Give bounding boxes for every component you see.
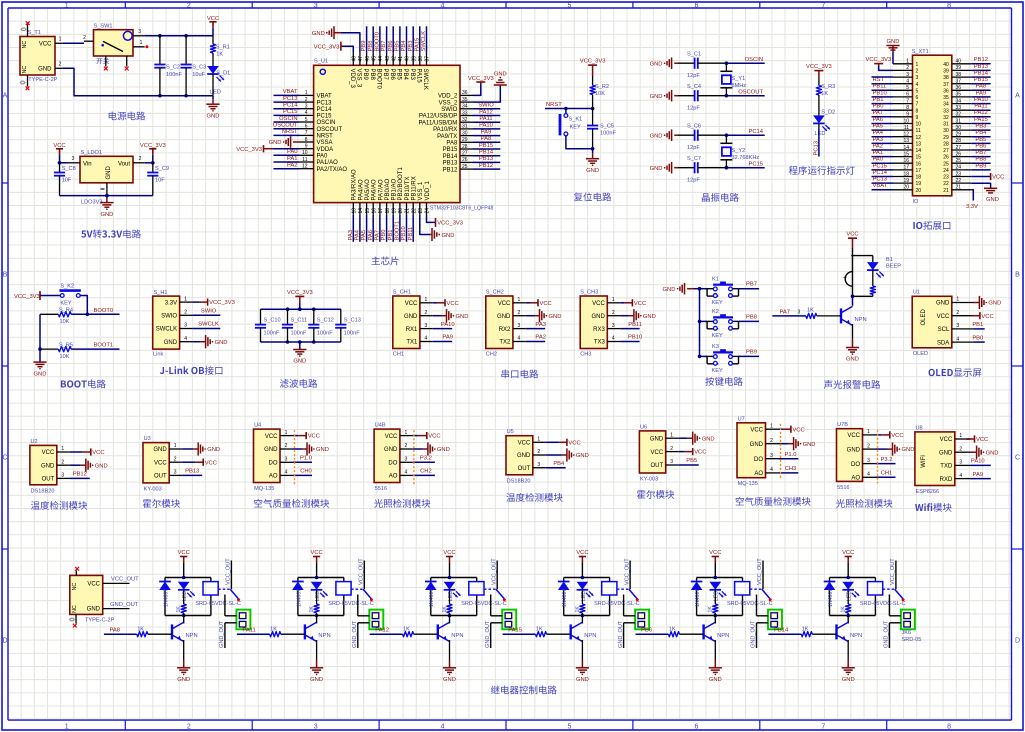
svg-text:PA12: PA12 [974, 110, 988, 116]
svg-text:PB8: PB8 [975, 157, 986, 163]
svg-text:GND: GND [887, 39, 900, 45]
svg-text:PB6: PB6 [641, 628, 652, 634]
svg-text:14: 14 [916, 148, 922, 154]
buzzer B1 BEEP [852, 256, 854, 273]
svg-text:100nF: 100nF [344, 331, 360, 337]
svg-text:PB0/AO: PB0/AO [385, 178, 391, 200]
transistor Q1 NPN [852, 296, 854, 306]
svg-text:35: 35 [943, 95, 949, 101]
svg-text:VSSA: VSSA [317, 140, 333, 146]
svg-text:SWIO: SWIO [201, 309, 217, 315]
svg-text:PB5: PB5 [396, 69, 402, 81]
svg-text:40: 40 [943, 62, 949, 68]
module U7B (5516) [837, 429, 863, 482]
base resistor 1K channel 4 [503, 633, 536, 635]
wire GND_OUT channel 6 [889, 622, 901, 624]
relay contact channel 6 [883, 588, 895, 590]
wire and net label PB13 [473, 161, 500, 163]
svg-text:PA2: PA2 [287, 163, 298, 169]
resistor 1K channel 1 [183, 590, 185, 604]
wire alarm bottom [851, 295, 873, 297]
svg-text:OUT: OUT [154, 474, 167, 480]
terminal block channel 6 [901, 610, 915, 630]
svg-text:VBAT: VBAT [283, 89, 298, 95]
svg-text:K2: K2 [712, 309, 719, 315]
module U4 (MQ-135) [254, 429, 281, 482]
svg-text:S_C4: S_C4 [687, 84, 701, 90]
svg-text:OSCOUT: OSCOUT [317, 127, 343, 133]
terminal block channel 3 [502, 610, 516, 630]
transistor NPN channel 2 [316, 616, 318, 624]
svg-text:24: 24 [943, 168, 949, 174]
svg-text:CH0: CH0 [300, 469, 312, 475]
wire and net label PB12 [473, 168, 500, 170]
svg-text:U3: U3 [144, 436, 151, 442]
svg-text:PA15: PA15 [415, 69, 421, 84]
svg-text:PC15: PC15 [317, 114, 333, 120]
module U3 (KY-003) [143, 443, 169, 483]
title 5V to 3.3V circuit [81, 230, 141, 239]
svg-text:PA10/RX: PA10/RX [433, 127, 457, 133]
svg-text:MQ-135: MQ-135 [254, 486, 274, 492]
svg-text:GND_OUT: GND_OUT [618, 620, 624, 648]
ground [592, 149, 594, 154]
svg-text:43: 43 [385, 56, 391, 62]
svg-text:PA6: PA6 [873, 117, 884, 123]
svg-text:PB10: PB10 [401, 226, 407, 240]
svg-text:TX1: TX1 [406, 340, 418, 346]
svg-text:37: 37 [943, 82, 949, 88]
title serial port circuit [501, 370, 538, 379]
svg-text:1: 1 [956, 297, 959, 303]
svg-text:PA5: PA5 [361, 230, 367, 241]
terminal block channel 1 [236, 610, 250, 630]
power port VCC_3V3 at pin 48 VDD_3 [343, 46, 354, 53]
svg-text:VCC: VCC [308, 434, 320, 440]
svg-text:2: 2 [670, 446, 673, 452]
power port VCC [212, 28, 214, 36]
svg-text:VCC: VCC [750, 427, 763, 433]
svg-text:13: 13 [916, 142, 922, 148]
wire and vertical net label PB3 [412, 26, 414, 52]
svg-text:RXD: RXD [940, 477, 953, 483]
svg-text:RX3: RX3 [593, 327, 605, 333]
title relay control circuit [491, 686, 557, 695]
svg-text:1K: 1K [176, 606, 182, 613]
svg-text:PA12: PA12 [375, 628, 389, 634]
regulator S_LDO1 [80, 156, 133, 183]
svg-text:PB14: PB14 [974, 71, 989, 77]
svg-text:PA4: PA4 [873, 130, 884, 136]
relay K5 SRD-05VDC-SL-C [735, 582, 750, 595]
wire and net label VBAT (left) [872, 189, 894, 191]
wire and vertical net label SWCLK [426, 26, 428, 52]
svg-text:SWIO: SWIO [161, 314, 177, 320]
svg-text:SWIO: SWIO [441, 107, 457, 113]
svg-text:PB5: PB5 [686, 458, 697, 464]
svg-text:TX2: TX2 [499, 340, 511, 346]
svg-text:8: 8 [947, 724, 951, 731]
svg-text:10K: 10K [60, 354, 70, 360]
pin GND of T2 with GND_OUT label [103, 608, 130, 610]
svg-text:1N4007: 1N4007 [562, 589, 568, 607]
svg-text:GND: GND [643, 314, 656, 320]
svg-text:PA6/AO: PA6/AO [372, 179, 378, 201]
svg-text:D: D [2, 638, 7, 645]
svg-text:100nF: 100nF [166, 72, 182, 78]
svg-text:12pF: 12pF [687, 145, 700, 151]
ground channel 2 [316, 666, 318, 669]
svg-text:5: 5 [568, 724, 572, 731]
svg-text:PB10: PB10 [628, 335, 642, 341]
ground at pin 35 VSS_2 [473, 85, 500, 102]
power port VCC_3V3 indicator [818, 71, 820, 78]
crystal S_Y1 8MHz [725, 63, 727, 71]
svg-text:3: 3 [138, 29, 141, 35]
svg-text:PA2: PA2 [535, 335, 546, 341]
svg-text:RST: RST [873, 77, 885, 83]
svg-text:S_C8: S_C8 [62, 166, 76, 172]
capacitor S_C10 100nF [260, 309, 262, 324]
title crystal circuit [702, 193, 739, 202]
svg-text:VCC: VCC [847, 433, 860, 439]
power port VCC relay channel 3 [449, 557, 451, 564]
svg-text:PB7: PB7 [381, 41, 387, 52]
wire BOOT1 net label [71, 348, 119, 350]
svg-text:100nF: 100nF [317, 331, 333, 337]
svg-text:GND: GND [404, 314, 418, 320]
svg-text:VCC: VCC [792, 427, 804, 433]
ground [299, 348, 301, 351]
svg-text:P3.2: P3.2 [881, 457, 893, 463]
wire and vertical net label PB5 [399, 26, 401, 52]
svg-text:PA12/USB/DP: PA12/USB/DP [419, 114, 457, 120]
pin 1 GND of S_LDO1 [106, 183, 108, 196]
svg-text:NPN: NPN [186, 633, 198, 639]
svg-text:PB15: PB15 [974, 77, 988, 83]
svg-text:PB0: PB0 [972, 335, 983, 341]
svg-text:S_C12: S_C12 [317, 318, 334, 324]
wire and net label PA3 (left) [872, 142, 894, 144]
svg-text:7: 7 [821, 3, 825, 10]
svg-text:1: 1 [285, 430, 288, 436]
svg-text:GND: GND [384, 447, 398, 453]
svg-text:12: 12 [916, 135, 922, 141]
ground at S_C1 [666, 61, 668, 65]
svg-text:PB1: PB1 [972, 322, 983, 328]
relay K2 SRD-05VDC-SL-C [336, 582, 351, 595]
key K1 [698, 287, 702, 291]
svg-text:VSS_1: VSS_1 [418, 181, 424, 200]
svg-text:VCC: VCC [891, 433, 903, 439]
svg-text:PB8: PB8 [746, 314, 757, 320]
svg-text:PC13: PC13 [814, 141, 820, 156]
svg-text:PB3: PB3 [408, 41, 414, 52]
svg-text:4: 4 [285, 470, 288, 476]
svg-text:15: 15 [365, 208, 371, 214]
svg-text:GND: GND [847, 447, 861, 453]
svg-text:VCC_3V3: VCC_3V3 [866, 57, 892, 63]
svg-text:1: 1 [612, 297, 615, 303]
svg-text:4: 4 [425, 336, 428, 342]
svg-text:VCC: VCC [447, 301, 459, 307]
svg-text:25: 25 [943, 161, 949, 167]
svg-text:VDD_2: VDD_2 [438, 94, 458, 100]
capacitor S_C11 100nF [287, 309, 289, 324]
svg-text:B: B [1015, 272, 1020, 279]
svg-text:VCC: VCC [428, 434, 440, 440]
wire GND_OUT channel 5 [757, 622, 769, 624]
LED channel 6 [842, 582, 854, 590]
svg-text:VCC: VCC [178, 550, 190, 556]
svg-text:GND_OUT: GND_OUT [352, 620, 358, 648]
svg-text:KY-003: KY-003 [144, 486, 162, 492]
svg-text:GND_OUT: GND_OUT [219, 620, 225, 648]
svg-text:OSCOUT: OSCOUT [738, 89, 763, 95]
svg-text:GND: GND [207, 113, 220, 119]
wire and vertical net label PB7 [386, 26, 388, 52]
wire and net label PA1 [274, 161, 300, 163]
ground channel 3 [449, 666, 451, 669]
module U5 (DS18B20) [506, 436, 533, 475]
display U1 OLED [912, 296, 952, 348]
svg-text:TX3: TX3 [594, 340, 606, 346]
wire filter top rail [261, 308, 341, 310]
svg-text:10K: 10K [60, 319, 70, 325]
svg-text:3: 3 [670, 459, 673, 465]
svg-text:1: 1 [959, 433, 962, 439]
svg-text:VBAT: VBAT [317, 94, 333, 100]
wire and net label PA2 (left) [872, 149, 894, 151]
svg-text:S_C9: S_C9 [155, 166, 169, 172]
wire to ground [299, 342, 301, 349]
svg-text:PA5/AO: PA5/AO [365, 179, 371, 201]
svg-text:AO: AO [851, 476, 860, 482]
svg-text:3: 3 [405, 457, 408, 463]
svg-text:1K: 1K [270, 627, 277, 633]
svg-text:31: 31 [943, 122, 949, 128]
wire and net label PA0 (left) [872, 162, 894, 164]
junction [158, 34, 162, 38]
wire GND_OUT channel 3 [491, 622, 503, 624]
svg-text:PC13: PC13 [283, 96, 298, 102]
LED channel 1 [178, 582, 190, 590]
svg-text:VCC: VCC [518, 441, 531, 447]
svg-text:PA10: PA10 [974, 97, 988, 103]
svg-text:PC15: PC15 [873, 163, 888, 169]
svg-text:VCC: VCC [937, 314, 950, 320]
wire and net label PB1 (left) [872, 103, 894, 105]
svg-text:S_Y1: S_Y1 [732, 76, 746, 82]
svg-text:DO: DO [851, 462, 860, 468]
wire emitter to ground channel 6 [847, 640, 849, 660]
svg-text:GND: GND [939, 450, 953, 456]
svg-text:14: 14 [358, 208, 364, 214]
svg-text:10F: 10F [62, 178, 72, 184]
svg-text:1N4007: 1N4007 [695, 589, 701, 607]
transistor NPN channel 1 [183, 616, 185, 624]
wire and net label PA6 (left) [872, 123, 894, 125]
svg-text:CH2: CH2 [486, 352, 497, 358]
wire and vertical net label PB0 [386, 215, 388, 242]
LED S_D3 in alarm branch [872, 256, 874, 263]
module U6 (KY-003) [639, 431, 665, 473]
svg-text:22: 22 [943, 181, 949, 187]
svg-text:C: C [1015, 455, 1020, 462]
svg-text:VCC: VCC [39, 41, 52, 47]
svg-text:VDDA: VDDA [317, 147, 334, 153]
wire into pin 3 of S_XT1 [872, 76, 894, 78]
svg-text:S_C10: S_C10 [264, 318, 281, 324]
svg-text:28: 28 [943, 142, 949, 148]
svg-text:1N4007: 1N4007 [296, 589, 302, 607]
svg-text:GND: GND [269, 140, 282, 146]
svg-text:U2: U2 [31, 439, 38, 445]
wire and net label PB4 (right) [971, 136, 990, 138]
svg-text:NC: NC [22, 66, 28, 74]
ground [39, 361, 41, 364]
svg-text:VCC: VCC [651, 450, 664, 456]
svg-text:1K: 1K [403, 627, 410, 633]
transistor NPN channel 3 [449, 616, 451, 624]
svg-text:VCC: VCC [940, 437, 953, 443]
resistor S_R2 10K [592, 76, 594, 85]
pin 3 of S_SW1 [133, 35, 145, 37]
svg-text:PB9: PB9 [975, 163, 986, 169]
svg-text:42: 42 [391, 56, 397, 62]
svg-text:BEEP: BEEP [886, 264, 901, 270]
title reset circuit [574, 192, 611, 201]
switch S_SW1 [94, 30, 134, 56]
LED channel 4 [577, 582, 589, 590]
svg-text:A: A [3, 93, 8, 100]
svg-text:PA8: PA8 [976, 84, 987, 90]
wire and net label OSCOUT [274, 128, 300, 130]
svg-text:DO: DO [754, 457, 763, 463]
svg-text:3: 3 [959, 460, 962, 466]
svg-text:1: 1 [174, 443, 177, 449]
wire VCC_3V3 to key S_K2 [40, 295, 60, 297]
pin VCC of T2 with VCC_OUT label [103, 582, 130, 584]
power port VCC relay channel 2 [316, 557, 318, 564]
wire emitter to ground channel 1 [183, 640, 185, 660]
wire and vertical net label PB11 [412, 215, 414, 242]
connector T2 TYPE-C-2P output power [70, 575, 103, 614]
LED channel 3 [444, 582, 456, 590]
wire relay coil loop channel 4 [564, 577, 610, 579]
wire relay coil loop channel 3 [431, 577, 477, 579]
ground at S_C7 [666, 166, 668, 170]
svg-text:PB6: PB6 [388, 41, 394, 52]
svg-text:VCC: VCC [842, 550, 854, 556]
svg-text:U4: U4 [254, 423, 261, 429]
svg-text:VCC: VCC [385, 434, 398, 440]
svg-text:4: 4 [518, 336, 521, 342]
wire to Vout [145, 162, 153, 164]
svg-text:21: 21 [943, 188, 949, 194]
svg-text:B: B [3, 272, 8, 279]
wire and net label PC14 [274, 108, 300, 110]
svg-text:IO: IO [913, 199, 920, 205]
svg-text:S_R1: S_R1 [216, 45, 230, 51]
svg-text:5516: 5516 [375, 486, 387, 492]
svg-text:OSCIN: OSCIN [279, 116, 297, 122]
svg-text:PB12: PB12 [479, 163, 493, 169]
transistor NPN channel 6 [847, 616, 849, 624]
wire relay contact to terminal channel 4 [623, 595, 625, 616]
svg-text:GND: GND [87, 607, 101, 613]
svg-text:1N4007: 1N4007 [163, 589, 169, 607]
wire and vertical net label PB10 [406, 215, 408, 242]
svg-text:PB9: PB9 [361, 41, 367, 52]
svg-text:1: 1 [61, 446, 64, 452]
relay K3 SRD-05VDC-SL-C [469, 582, 484, 595]
svg-text:S_C5: S_C5 [600, 123, 614, 129]
base resistor 1K channel 3 [370, 633, 403, 635]
svg-text:GND: GND [38, 66, 52, 72]
wire emitter to ground channel 4 [581, 640, 583, 660]
svg-text:PA1: PA1 [873, 150, 884, 156]
svg-text:PB4: PB4 [975, 130, 987, 136]
power port VCC relay channel 4 [581, 557, 583, 564]
svg-text:2: 2 [537, 449, 540, 455]
svg-text:100nF: 100nF [264, 331, 280, 337]
svg-text:GND: GND [650, 61, 663, 67]
resistor S_R1 1K [212, 36, 214, 44]
svg-text:4: 4 [441, 3, 445, 10]
svg-text:PC14: PC14 [873, 170, 888, 176]
svg-text:3.3V: 3.3V [165, 300, 177, 306]
svg-text:PA9: PA9 [481, 129, 492, 135]
svg-text:P3.2: P3.2 [420, 456, 432, 462]
svg-text:19: 19 [916, 181, 922, 187]
terminal block channel 2 [369, 610, 383, 630]
svg-text:Vout: Vout [118, 161, 130, 167]
svg-text:OUT: OUT [651, 463, 664, 469]
wire and vertical net label BOOT0 [379, 26, 381, 52]
svg-text:10: 10 [916, 122, 922, 128]
svg-text:S_CH3: S_CH3 [580, 290, 598, 296]
svg-text:2: 2 [956, 310, 959, 316]
svg-text:GND_OUT: GND_OUT [485, 620, 491, 648]
svg-text:LED: LED [210, 90, 221, 96]
wire and vertical net label PA4 [359, 215, 361, 242]
svg-text:11: 11 [916, 128, 921, 134]
svg-text:A: A [1015, 93, 1020, 100]
svg-text:7: 7 [916, 102, 919, 108]
wire with net label PC14 [726, 134, 764, 136]
svg-text:2: 2 [425, 310, 428, 316]
svg-text:GND: GND [846, 357, 859, 363]
wire and net label PA9 [473, 135, 500, 137]
wire and vertical net label PB6 [392, 26, 394, 52]
capacitor S_C1 12pF [678, 62, 695, 64]
wire ground rail of LDO [60, 195, 153, 197]
svg-text:U7: U7 [738, 416, 745, 422]
svg-text:PA5: PA5 [873, 124, 884, 130]
svg-text:DO: DO [269, 461, 278, 467]
svg-text:GND: GND [549, 314, 562, 320]
base resistor 1K channel 6 [768, 633, 801, 635]
svg-text:PA0: PA0 [287, 149, 298, 155]
title 霍尔模块 [637, 490, 674, 499]
wire GND_OUT channel 1 [225, 622, 237, 624]
LED S_D2 [813, 115, 825, 123]
wire NRST with net label [545, 108, 593, 110]
svg-text:GND: GND [207, 447, 220, 453]
svg-text:1: 1 [425, 297, 428, 303]
svg-text:20: 20 [398, 208, 404, 214]
